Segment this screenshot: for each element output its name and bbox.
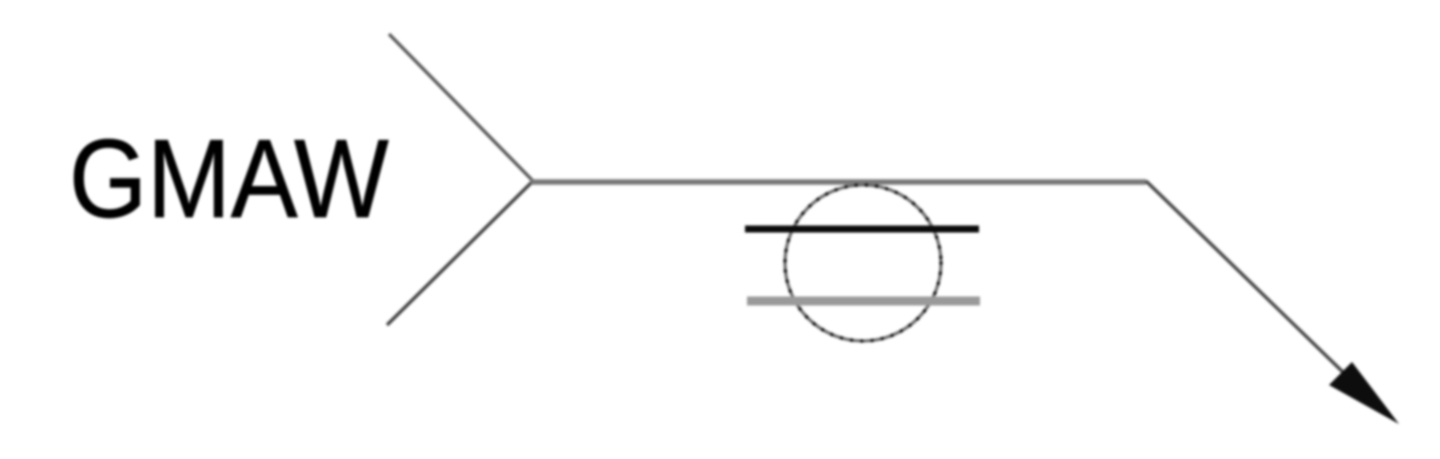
- svg-text:GMAW: GMAW: [69, 117, 389, 241]
